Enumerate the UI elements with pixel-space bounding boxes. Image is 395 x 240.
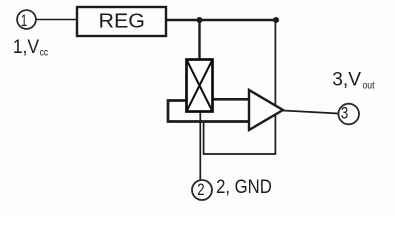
wire from terminal 1 to REG xyxy=(36,19,77,21)
svg-text:out: out xyxy=(363,80,375,92)
wire amp output to terminal 3 xyxy=(283,111,339,114)
wire Hall right output to amp upper input xyxy=(213,98,250,101)
label 1,Vcc xyxy=(13,37,48,58)
svg-text:3,V: 3,V xyxy=(332,70,361,91)
Hall element X-box xyxy=(187,60,213,112)
label 3,Vout xyxy=(332,70,374,92)
wire feedback left vertical to amp lower input xyxy=(203,122,205,155)
wire feedback bottom horizontal xyxy=(204,153,277,155)
terminal 2 xyxy=(192,180,212,200)
wire feedback vertical from rail (passes behind amplifier) xyxy=(274,20,276,154)
svg-text:3: 3 xyxy=(341,104,349,123)
wire Vcc rail from REG to right xyxy=(166,19,277,21)
svg-text:REG: REG xyxy=(99,11,146,33)
wire ground from Hall element to terminal 2 xyxy=(199,111,201,180)
svg-text:1,V: 1,V xyxy=(13,37,40,58)
op-amp amplifier triangle xyxy=(249,90,283,130)
terminal 3 xyxy=(338,104,359,125)
svg-text:cc: cc xyxy=(40,46,49,58)
terminal 1 xyxy=(17,10,36,29)
svg-text:2: 2 xyxy=(197,180,205,199)
wire rail down to Hall element xyxy=(198,20,200,59)
svg-text:2, GND: 2, GND xyxy=(216,177,272,198)
svg-text:1: 1 xyxy=(21,11,28,30)
junction dot at Hall drop xyxy=(197,17,203,23)
junction dot at feedback drop xyxy=(273,17,279,23)
regulator REG box xyxy=(77,7,166,36)
wire Hall left output U-path to amp lower input xyxy=(168,101,250,122)
